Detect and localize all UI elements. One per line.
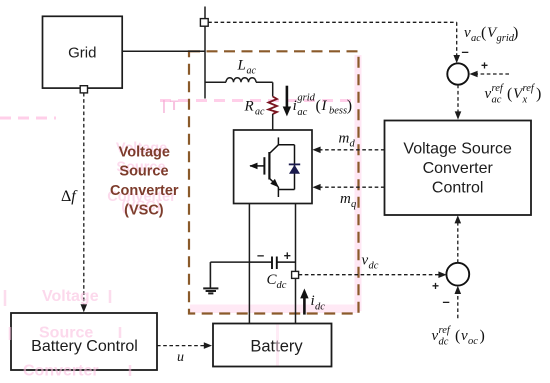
svg-text:): ): [347, 98, 352, 115]
inductor L_ac: [205, 78, 273, 83]
svg-text:(VSC): (VSC): [124, 203, 164, 219]
svg-text:x: x: [522, 95, 528, 106]
dashed v_dc ref into sum2 from below: [457, 293, 459, 318]
svg-text:ac: ac: [492, 95, 502, 106]
box: Voltage Source Converter Control: [385, 121, 532, 216]
svg-text:Source: Source: [39, 325, 93, 342]
dashed sum2 output up into control box: [457, 222, 459, 263]
svg-text:v: v: [362, 253, 369, 269]
capacitor C_dc: [249, 261, 272, 263]
svg-text:+: +: [481, 59, 488, 73]
sum junction 1 (v_ac): [447, 63, 468, 84]
svg-text:Grid: Grid: [68, 45, 96, 62]
arrow i_dc: [303, 298, 306, 315]
svg-text:bess: bess: [329, 106, 347, 117]
wire: DC left lead: [248, 204, 250, 324]
svg-text:dc: dc: [277, 280, 287, 291]
box: Battery: [213, 324, 332, 367]
box: converter: [234, 130, 312, 204]
svg-text:dc: dc: [439, 337, 449, 348]
svg-text:(: (: [507, 86, 512, 103]
svg-text:Converter: Converter: [423, 160, 494, 177]
pink watermark band bottom of VSC area: [190, 305, 360, 314]
svg-text:u: u: [177, 350, 184, 365]
svg-text:(: (: [481, 25, 486, 42]
svg-text:–: –: [443, 294, 450, 309]
wire: AC bus vertical: [204, 7, 206, 99]
svg-text:q: q: [351, 199, 356, 210]
svg-text:dc: dc: [369, 261, 379, 272]
svg-text:(: (: [316, 98, 321, 115]
wire: dashed v_ac feedback vertical: [456, 22, 458, 56]
svg-text:–: –: [462, 44, 469, 59]
svg-text:): ): [480, 328, 485, 345]
wire: dashed v_dc to sum2: [299, 274, 441, 276]
svg-text:Converter: Converter: [110, 183, 179, 199]
box: Battery Control: [11, 313, 157, 370]
node: grid bottom square: [80, 86, 87, 93]
pink watermark strip in battery box: [276, 325, 279, 366]
pink watermark band along VSC right edge: [355, 55, 362, 311]
VSC label text (brown): [110, 145, 179, 219]
svg-text:m: m: [339, 131, 350, 147]
pink watermark text bottom-left (over boxes): [23, 288, 99, 380]
VSC dashed boundary rectangle: [189, 51, 359, 313]
svg-text:Voltage: Voltage: [42, 288, 99, 305]
svg-text:+: +: [432, 279, 439, 293]
svg-text:| T: | T: [162, 97, 179, 113]
svg-text:ac: ac: [247, 66, 257, 77]
svg-text:): ): [536, 86, 541, 103]
dashed m_d arrow: [319, 149, 385, 151]
resistor R_ac (zigzag): [268, 97, 277, 115]
svg-text:m: m: [340, 191, 351, 207]
IGBT symbol: [250, 137, 295, 197]
svg-text:Source: Source: [119, 164, 168, 180]
svg-text:+: +: [284, 249, 291, 263]
svg-text:Voltage Source: Voltage Source: [403, 141, 512, 158]
svg-text:v: v: [464, 25, 471, 41]
sum junction 2 (v_dc): [446, 263, 469, 286]
svg-text:–: –: [257, 248, 264, 263]
svg-text:I: I: [321, 98, 328, 114]
svg-text:v: v: [461, 328, 468, 344]
wire: DC right lead: [295, 204, 297, 324]
pink watermark left edge ticks: [5, 290, 130, 376]
svg-text:grid: grid: [497, 33, 515, 44]
node: v_dc square: [292, 271, 299, 278]
svg-text:Voltage: Voltage: [119, 145, 170, 161]
diode (anti-parallel, navy): [289, 163, 300, 165]
svg-text:Control: Control: [432, 180, 484, 197]
pink watermark dashed line upper: [0, 101, 352, 119]
wire: grid to AC bus: [122, 50, 205, 52]
svg-text:ac: ac: [255, 107, 265, 118]
wire: dashed delta-f from grid to battery control: [83, 93, 85, 306]
svg-text:ac: ac: [471, 33, 481, 44]
svg-text:v: v: [485, 86, 492, 102]
svg-text:dc: dc: [315, 302, 325, 313]
svg-text:Converter: Converter: [23, 363, 99, 380]
wire: dashed v_ac feedback horizontal: [208, 21, 457, 23]
svg-text:i: i: [293, 98, 297, 114]
arrow i_ac: [286, 86, 289, 108]
svg-text:v: v: [432, 328, 439, 344]
ground: [203, 288, 218, 293]
wire: L to R: [272, 82, 274, 96]
svg-text:d: d: [350, 139, 356, 150]
dashed v_ac ref into sum1 from right: [477, 73, 509, 75]
svg-text:Δf: Δf: [61, 188, 78, 205]
wire: ground branch: [210, 261, 249, 263]
svg-text:L: L: [237, 58, 246, 74]
svg-text:): ): [513, 25, 518, 42]
svg-text:R: R: [244, 99, 254, 115]
box: Grid: [43, 16, 123, 88]
IGBT emitter arrow: [270, 179, 279, 188]
wire: R to converter box: [272, 114, 274, 130]
dashed m_q arrow: [319, 186, 385, 188]
dashed u from battery control to battery: [157, 345, 206, 347]
IGBT gate arrow: [249, 163, 257, 170]
svg-text:oc: oc: [468, 336, 478, 347]
svg-text:(: (: [455, 328, 460, 345]
pink watermark haze behind VSC label: [107, 141, 176, 215]
dashed sum1 output into control box: [457, 85, 459, 113]
node: AC measurement square top: [200, 19, 208, 27]
svg-text:grid: grid: [297, 93, 315, 104]
svg-text:ac: ac: [297, 107, 307, 118]
